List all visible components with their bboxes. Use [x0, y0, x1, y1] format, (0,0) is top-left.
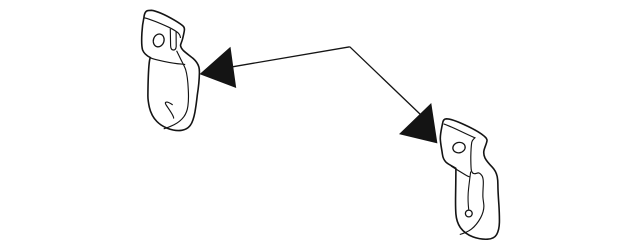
- arrowhead pointing at left bracket: [201, 48, 236, 87]
- left bracket tab bottom edge: [150, 58, 185, 65]
- right bracket tab face inner edge (diagonal): [444, 124, 484, 235]
- left bracket tab face inner edge (diagonal): [144, 18, 180, 38]
- left bracket inner body contour: [164, 51, 189, 129]
- left bracket surface mark: [165, 102, 173, 118]
- leader line to left bracket: [233, 47, 350, 67]
- right bracket tab bottom edge: [451, 166, 470, 177]
- right bracket outer outline: [440, 119, 499, 239]
- left bracket tab hole: [152, 33, 166, 49]
- leader line to right bracket: [350, 47, 421, 115]
- arrowhead pointing at right bracket: [400, 104, 437, 143]
- left bracket slot (hairpin): [170, 29, 176, 50]
- right bracket tab hole: [452, 141, 466, 154]
- left bracket outer outline: [142, 10, 200, 130]
- right bracket inner face left edge: [468, 172, 471, 210]
- right bracket body hole: [465, 210, 472, 217]
